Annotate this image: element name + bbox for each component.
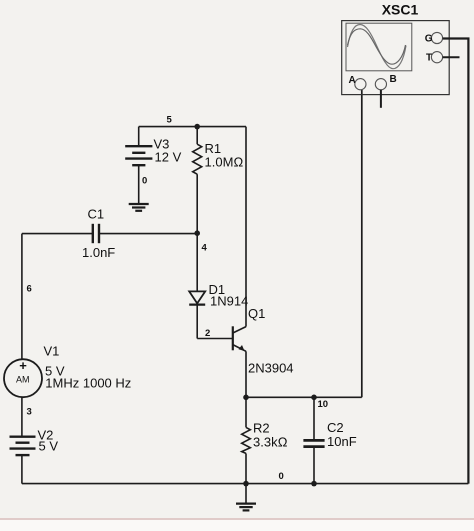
- svg-text:1.0MΩ: 1.0MΩ: [205, 155, 244, 170]
- resistor R2: [242, 397, 288, 483]
- svg-text:Q1: Q1: [248, 306, 265, 321]
- svg-text:V1: V1: [44, 344, 60, 359]
- battery V2: [10, 428, 59, 456]
- svg-text:1N914: 1N914: [210, 294, 248, 309]
- wire V1 to V2: [21, 397, 23, 436]
- oscilloscope XSC1: [342, 2, 450, 95]
- svg-text:3: 3: [27, 407, 32, 418]
- svg-text:B: B: [390, 74, 397, 85]
- wire collector riser (node 5 corner down to Q1 collector): [245, 127, 247, 327]
- svg-text:4: 4: [202, 243, 208, 254]
- ground (V3): [129, 204, 149, 211]
- wire scope input A drop: [361, 90, 363, 398]
- svg-text:1MHz 1000 Hz: 1MHz 1000 Hz: [45, 376, 131, 391]
- svg-text:C2: C2: [327, 420, 344, 435]
- svg-text:G: G: [425, 34, 433, 45]
- wire node 5: top horizontal from V3 to collector riser: [139, 126, 246, 128]
- svg-text:1.0nF: 1.0nF: [82, 245, 115, 260]
- svg-text:XSC1: XSC1: [382, 2, 419, 18]
- battery V3: [125, 127, 181, 166]
- svg-text:12 V: 12 V: [155, 150, 182, 165]
- svg-text:5 V: 5 V: [39, 439, 59, 454]
- svg-text:2N3904: 2N3904: [248, 361, 294, 376]
- source V1 (AM): [4, 344, 131, 398]
- svg-text:R2: R2: [253, 421, 270, 436]
- wire node 6: C1 down to V1: [21, 234, 23, 360]
- svg-text:+: +: [19, 358, 27, 373]
- wire scope G to ground bus (L shaped): [443, 39, 469, 484]
- junction ground bus at R2: [243, 481, 249, 487]
- capacitor C1: [22, 207, 197, 261]
- svg-text:AM: AM: [16, 375, 30, 385]
- svg-text:3.3kΩ: 3.3kΩ: [253, 435, 288, 450]
- wire V2 to ground bus: [21, 455, 23, 484]
- svg-text:0: 0: [142, 176, 147, 187]
- transistor Q1: [233, 306, 294, 376]
- junction node 4: [194, 230, 200, 236]
- svg-text:5: 5: [167, 115, 173, 126]
- svg-text:10: 10: [318, 399, 329, 410]
- svg-text:6: 6: [27, 284, 32, 295]
- svg-text:A: A: [349, 75, 356, 86]
- junction ground bus at C2: [311, 481, 317, 487]
- junction node 10 (emitter): [243, 395, 249, 401]
- svg-text:0: 0: [279, 471, 284, 482]
- wire scope T stub: [443, 56, 460, 58]
- wire node 2: diode to base: [197, 338, 233, 340]
- wire ground bus (node 0 bottom): [22, 483, 469, 485]
- diode D1: [189, 233, 248, 338]
- capacitor C2: [303, 397, 356, 483]
- svg-text:2: 2: [205, 328, 210, 339]
- resistor R1: [193, 127, 244, 233]
- ground (bus): [236, 484, 256, 511]
- junction node 5 (R1 tap): [194, 124, 200, 130]
- wire V3 to ground: [138, 165, 140, 204]
- scan artifact pink line at bottom: [0, 518, 474, 520]
- wire scope B stub: [380, 90, 382, 108]
- svg-text:10nF: 10nF: [327, 434, 357, 449]
- svg-text:T: T: [426, 53, 432, 64]
- junction node 10 (C2 tap): [311, 395, 317, 401]
- svg-text:C1: C1: [88, 207, 105, 222]
- wire node 10 horizontal: [246, 396, 362, 398]
- wire emitter down to node 10: [245, 351, 247, 397]
